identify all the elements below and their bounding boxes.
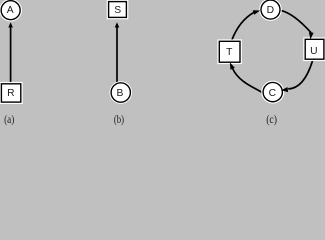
svg-text:A: A — [7, 5, 14, 16]
svg-text:(a): (a) — [4, 112, 14, 126]
svg-text:T: T — [226, 47, 233, 58]
svg-text:R: R — [7, 88, 14, 99]
svg-text:S: S — [114, 5, 121, 16]
svg-text:U: U — [310, 46, 317, 57]
svg-text:D: D — [267, 5, 274, 16]
svg-text:(b): (b) — [114, 112, 124, 126]
svg-text:C: C — [269, 88, 277, 99]
svg-text:B: B — [116, 88, 123, 99]
svg-text:(c): (c) — [266, 112, 277, 126]
